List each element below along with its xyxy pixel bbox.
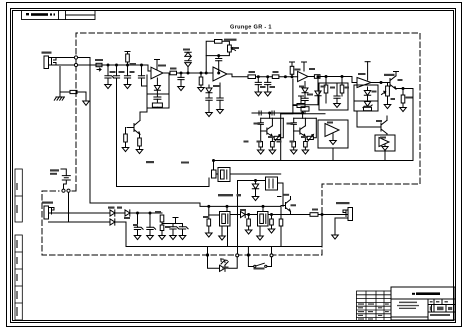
wire U4A out (230, 173, 281, 175)
resistor R16 in box (324, 77, 328, 104)
wire Q2 out (214, 89, 414, 161)
U5A grounds (219, 226, 226, 240)
node junction (116.5,65) (116, 64, 118, 66)
transistor Q4 cell (290, 112, 316, 154)
analog switch U4B (266, 177, 278, 190)
analog switch U5A (220, 212, 231, 227)
capacitor C16 (179, 224, 188, 240)
input jack J1 (44, 56, 56, 69)
wire to A2 (177, 72, 214, 74)
mid network wires (252, 112, 303, 114)
node junction (218.7,73) (218, 72, 220, 74)
main title box (391, 287, 455, 320)
node junction (127.5,65) (127, 64, 129, 66)
resistor R10 top (215, 40, 223, 44)
wire to A3 (279, 76, 298, 78)
resistor R7 (136, 135, 143, 154)
node junction (302.6,113) (302, 112, 304, 114)
top-left revision strip (22, 11, 96, 20)
switch node 1 (62, 189, 65, 192)
wire gate (357, 111, 374, 127)
resistor R13 up (290, 62, 295, 77)
node junction (318,76.7) (317, 76, 319, 78)
op-amp U1C (298, 62, 308, 82)
wire jack sleeve to ground (60, 67, 62, 93)
capacitor C7 (218, 55, 220, 57)
resistor R5 in loop (147, 94, 169, 108)
node open contact (237.2,255.4) (236, 254, 239, 257)
wire jack ring (56, 64, 148, 66)
diode D12 (241, 211, 258, 217)
analog switch U5B (258, 212, 269, 227)
wire U5B top (262, 206, 264, 211)
wire jack tip (56, 57, 90, 59)
wire battery to jack ring (68, 193, 70, 223)
ferrite bead FB1 (96, 63, 102, 71)
node junction (248.4,255) (247, 254, 249, 256)
node junction (381,82.5) (380, 82, 382, 84)
resistor R2 pullup (125, 52, 130, 66)
node junction (292,76.7) (291, 76, 293, 78)
wire to amp jack (318, 214, 348, 216)
led D13 (208, 255, 238, 271)
capacitor C3 (124, 65, 131, 89)
node junction (141.5,65) (141, 64, 143, 66)
resistor R17 in box (340, 77, 344, 97)
capacitor C5 (178, 73, 185, 91)
wire U4A top (213, 161, 215, 171)
bottom bus nodes (206, 254, 208, 256)
diode D11 (125, 210, 162, 216)
wire to A4 (320, 77, 357, 83)
node junction (227,206.4) (226, 205, 228, 207)
capacitor C2 feed to switch (113, 65, 119, 187)
wire box U3C to bus (384, 151, 386, 161)
resistor R20 (293, 96, 305, 108)
ground (332, 235, 339, 239)
capacitor C4 in loop (154, 97, 161, 103)
resistor R19 (400, 89, 407, 112)
resistor R8 (170, 71, 177, 75)
wire U5B out (268, 214, 310, 216)
op-amp U1B (213, 67, 227, 81)
node junction (342,76.5) (341, 76, 343, 78)
node junction (269.6,113) (269, 112, 271, 114)
node junction (267.7,76.7) (267, 76, 269, 78)
zener D7 in box (363, 102, 372, 108)
node junction (285.4,76.7) (284, 76, 286, 78)
revision table (357, 291, 392, 321)
node junction (322,214.5) (321, 214, 323, 216)
box U3C with op-amp (375, 135, 395, 151)
wire A3 out (308, 76, 314, 78)
box U2A (319, 83, 348, 110)
wire U4B out (278, 183, 284, 206)
capacitor C9 (264, 77, 271, 96)
op-amp U1A (151, 60, 163, 79)
node junction (181,73) (180, 72, 182, 74)
transistor Q6 (278, 197, 291, 215)
capacitor C14 (147, 212, 156, 240)
node junction (263,206.4) (262, 205, 264, 207)
wire fet to box (386, 134, 388, 135)
transistor Q1 (127, 119, 140, 135)
svg-text:Grunge GR - 1: Grunge GR - 1 (230, 25, 272, 31)
node jack tip on enclosure (74, 56, 77, 59)
wire into op-amp (148, 65, 151, 71)
capacitor C12 marks (272, 111, 274, 115)
resistor R27 (268, 214, 275, 234)
output jack J2 (44, 206, 110, 222)
resistor R14 (301, 105, 309, 114)
transistor Q2 (390, 72, 399, 90)
pot VR1 (228, 45, 232, 52)
resistor R28 (279, 206, 283, 246)
A1 feedback loop (147, 73, 169, 94)
capacitor C11 marks (259, 111, 261, 115)
box U2B lower (354, 101, 378, 111)
wire dry signal down and right (90, 58, 281, 207)
node jack ring on enclosure (74, 63, 77, 66)
op-amp U2C (357, 62, 371, 88)
resistor R29 (310, 213, 318, 217)
battery B1 (61, 169, 70, 189)
wire A2 out (227, 74, 248, 77)
amp jack J3 (335, 208, 353, 236)
diode D10 (110, 219, 126, 225)
resistor R25 stack (159, 215, 166, 240)
wire U4B in (238, 180, 266, 182)
diode D3 chain (206, 85, 213, 117)
capacitor C1 (105, 65, 114, 89)
capacitor C10 in box (334, 83, 341, 108)
capacitor C13 (134, 212, 143, 240)
footswitch SW1 (248, 255, 271, 267)
wire box U3B to bus (332, 148, 334, 161)
wire A4 out (371, 82, 390, 84)
box U2B upper (354, 85, 378, 101)
feed line to switch (117, 178, 210, 187)
wire (256, 76, 273, 78)
diode pair D2 above wire (185, 52, 191, 73)
top-left strip text (26, 13, 55, 16)
wire U5A top (226, 206, 228, 211)
wire U5A out (230, 214, 241, 216)
resistor R6 (122, 128, 129, 152)
enclosure dashed boundary (42, 33, 420, 255)
A2 feedback network (205, 40, 235, 75)
wire right bus (321, 215, 323, 247)
resistor R9 (198, 73, 205, 92)
resistor R15 (314, 75, 320, 79)
resistor R11 (248, 75, 256, 79)
title block text marks (358, 292, 452, 319)
capacitor C17 (138, 65, 147, 86)
diode D6 in box (364, 87, 370, 102)
wire A1 out (163, 72, 170, 74)
junction dots input (107, 64, 109, 66)
node junction (403,88.5) (402, 88, 404, 90)
node open contact (271.5,255.4) (270, 254, 273, 257)
resistor R18 in box (364, 107, 372, 110)
diode D9 (110, 210, 125, 216)
resistor R1 (62, 90, 86, 93)
A3 feedback loop (281, 79, 293, 161)
node junction (201,73) (200, 72, 202, 74)
capacitor C15 (170, 224, 179, 240)
stub cap (173, 218, 178, 224)
diode D8 (252, 180, 259, 201)
wire mid (162, 223, 183, 225)
diode D1 in loop (154, 78, 160, 97)
wire output tip (62, 212, 110, 214)
wire ring down to bus (126, 222, 322, 247)
analog switch U4A (212, 168, 231, 182)
fet Q5 (374, 116, 387, 134)
capacitor C6 chain (217, 83, 224, 114)
node junction (206.2,73) (205, 72, 207, 74)
node junction (258.3,76.7) (257, 76, 259, 78)
diode D4 (302, 82, 308, 105)
node junction (213.5,160.5) (213, 160, 215, 162)
resistor R26 (245, 214, 252, 235)
ground (83, 92, 90, 105)
pot VR2 (382, 83, 391, 109)
node junction (326,76.5) (325, 76, 327, 78)
tiny gray reference labels (42, 39, 413, 270)
transistor Q3 cell (257, 112, 283, 154)
U5B grounds (257, 226, 264, 240)
left vertical document strip (15, 169, 22, 320)
switch node 2 (67, 189, 70, 192)
capacitor C8 (255, 77, 262, 96)
node junction (188,73) (187, 72, 189, 74)
diode D5 right (315, 77, 321, 105)
node junction (208.8,206.4) (208, 205, 210, 207)
box U3B with op-amp (318, 120, 348, 148)
chassis ground (54, 92, 64, 100)
switch bus drops (206, 206, 220, 237)
resistor R12 (272, 75, 279, 79)
